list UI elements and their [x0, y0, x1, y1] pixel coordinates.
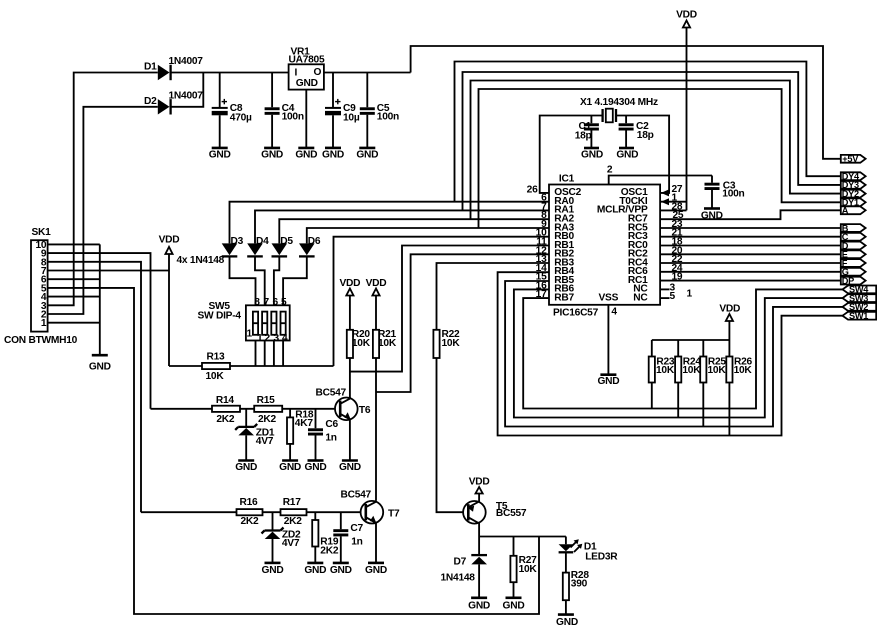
ground C8: [209, 148, 231, 161]
power VDD (R21): [366, 278, 387, 296]
wire RC4 to F flag: [660, 262, 841, 264]
svg-text:GND: GND: [305, 462, 327, 473]
svg-text:1N4148: 1N4148: [441, 573, 476, 584]
power VDD (T5): [469, 476, 490, 493]
svg-text:10K: 10K: [656, 365, 675, 376]
svg-text:GND: GND: [468, 600, 490, 611]
svg-text:R15: R15: [257, 395, 276, 406]
svg-text:10K: 10K: [352, 338, 371, 349]
ground C4: [261, 148, 283, 161]
ground R27: [503, 598, 525, 612]
svg-text:BC557: BC557: [496, 508, 527, 519]
wire RA2 to D5: [279, 219, 549, 243]
flag SW3: [843, 293, 877, 303]
svg-text:6: 6: [272, 297, 278, 308]
flag DY1: [841, 198, 866, 208]
ground R18: [279, 461, 301, 474]
wire D3 cathode to SW5 pin8: [230, 256, 256, 366]
regulator VR1 UA7805: [289, 46, 325, 89]
wire T0CKI stub: [660, 201, 686, 203]
wire DY3 net RA1 wrap: [463, 72, 841, 210]
wire OSC2 to crystal left: [540, 116, 603, 193]
svg-text:GND: GND: [296, 78, 318, 89]
ground ZD2: [262, 563, 284, 576]
wire RA3 to D6: [307, 228, 549, 243]
wire RB0 to switch common riser: [334, 237, 550, 366]
pin numbers IC right: [670, 184, 693, 302]
svg-text:R17: R17: [283, 497, 302, 508]
resistor R15 2K2: [254, 395, 282, 425]
svg-text:4V7: 4V7: [282, 538, 300, 549]
svg-text:+5V: +5V: [842, 154, 859, 164]
diode D6 1N4148: [299, 236, 321, 256]
svg-text:10K: 10K: [682, 365, 701, 376]
ground SK1: [89, 355, 111, 372]
wire T5 collector node line: [479, 536, 566, 538]
diode D1 1N4007: [144, 56, 203, 80]
svg-text:CON BTWMH10: CON BTWMH10: [4, 335, 78, 346]
wire RB4 wrap to SW1: [498, 272, 843, 435]
svg-text:D2: D2: [144, 96, 157, 107]
svg-text:4: 4: [611, 306, 617, 317]
diode D7 1N4148: [441, 555, 488, 584]
wire SK1 pin2 to D2 anode: [48, 107, 158, 314]
resistor R24 10K: [675, 340, 701, 418]
svg-text:D1: D1: [144, 62, 157, 73]
svg-text:1n: 1n: [351, 536, 362, 547]
ground VSS: [597, 375, 619, 388]
svg-text:18p: 18p: [637, 130, 654, 141]
ground C7: [330, 563, 352, 576]
flag C: [841, 232, 866, 242]
wire RC5 to B flag: [660, 227, 841, 229]
resistor R16 2K2: [237, 497, 263, 527]
transistor T7 BC547: [341, 490, 400, 563]
wire RB7 wrap to SW4: [523, 289, 842, 408]
svg-text:GND: GND: [616, 150, 638, 161]
wire SK1 pin8 down to T7 base line: [48, 262, 141, 512]
svg-text:VDD: VDD: [469, 476, 490, 487]
diode D5 1N4148: [272, 236, 294, 256]
wire RA0 to D3: [230, 202, 550, 244]
flag +5V: [841, 154, 866, 164]
ground T7 emitter: [365, 563, 387, 576]
resistor R21 10K pull-up: [373, 296, 397, 501]
wire T6 base line: [151, 408, 336, 410]
wire SK1 ground rail: [99, 244, 101, 355]
wire SK1 pin4 to ground rail: [48, 296, 100, 298]
wire RB5 wrap to SW2: [505, 281, 842, 427]
ground R19: [304, 563, 326, 576]
pin numbers IC left: [527, 184, 547, 300]
capacitor C2 18p: [619, 116, 654, 149]
capacitor C8 470u: [212, 73, 252, 148]
resistor R22 10K: [433, 329, 460, 358]
diode D4 1N4148: [247, 236, 269, 256]
svg-text:VSS: VSS: [599, 293, 619, 304]
svg-text:10µ: 10µ: [343, 113, 360, 124]
svg-text:100n: 100n: [377, 111, 399, 122]
svg-text:GND: GND: [330, 565, 352, 576]
flag DP: [841, 276, 866, 286]
resistor R26 10K: [726, 340, 752, 436]
svg-text:SW1: SW1: [849, 311, 868, 321]
ground C1: [581, 148, 603, 161]
svg-text:1: 1: [687, 288, 693, 299]
wire RC0 to D flag: [660, 245, 841, 247]
svg-text:LED3R: LED3R: [585, 551, 618, 562]
svg-text:10K: 10K: [206, 371, 225, 382]
wire RB3 through R22 to T5 base: [437, 263, 550, 512]
svg-text:NC: NC: [633, 292, 648, 303]
wire D5 cathode to SW5 pin6: [274, 256, 279, 366]
wire SK1 pin5 to bottom rail to T5 node: [48, 288, 539, 614]
svg-text:GND: GND: [365, 565, 387, 576]
svg-text:VDD: VDD: [676, 10, 697, 21]
wire RB1 to T6 collector node: [350, 246, 549, 372]
svg-text:D4: D4: [256, 236, 269, 247]
crystal X1 4.194304 MHz: [580, 97, 658, 122]
resistor R13 10K: [169, 352, 334, 383]
ground D7: [468, 598, 490, 612]
svg-text:1n: 1n: [325, 433, 336, 444]
power VDD (R26): [719, 304, 740, 341]
svg-text:4: 4: [282, 333, 288, 344]
resistor R19 2K2: [312, 512, 339, 563]
switch SW5 SW DIP-4: [198, 297, 290, 344]
ground R28: [556, 615, 578, 629]
flag A: [841, 206, 866, 216]
capacitor C3 100n: [705, 176, 745, 209]
ground C5: [356, 148, 378, 161]
flag SW2: [843, 302, 877, 312]
wire VR1 output rail: [324, 72, 411, 74]
resistor R17 2K2: [281, 497, 307, 527]
svg-text:10K: 10K: [442, 338, 461, 349]
ground ZD1: [235, 461, 257, 474]
flag SW1: [843, 311, 877, 321]
wire SK1 pin7 to VDD riser: [48, 270, 169, 272]
wire R23-R26 top rail: [652, 339, 730, 341]
flag G: [841, 267, 866, 277]
pin arrow OSC1: [661, 189, 669, 196]
svg-text:100n: 100n: [282, 111, 304, 122]
svg-text:IC1: IC1: [559, 174, 575, 185]
svg-text:I: I: [295, 68, 298, 79]
svg-text:470µ: 470µ: [230, 113, 252, 124]
svg-text:4V7: 4V7: [256, 436, 274, 447]
ground C9: [322, 148, 344, 161]
power VDD (R20): [340, 278, 361, 296]
svg-text:SK1: SK1: [32, 227, 52, 238]
wire VSS to ground: [607, 305, 609, 375]
connector SK1 CON BTWMH10: [4, 227, 78, 346]
svg-text:BC547: BC547: [341, 490, 372, 501]
wire +5V from regulator to flag: [411, 46, 841, 159]
flag B: [841, 223, 866, 233]
wire RC2 to E flag: [660, 253, 841, 255]
svg-text:18p: 18p: [575, 131, 592, 142]
capacitor C5 100n: [360, 73, 399, 148]
zener ZD2 4V7: [262, 512, 301, 563]
flag SW4: [843, 285, 877, 295]
svg-text:VDD: VDD: [159, 234, 180, 245]
svg-text:D5: D5: [280, 236, 293, 247]
svg-text:8: 8: [254, 297, 260, 308]
svg-text:2K2: 2K2: [320, 545, 339, 556]
svg-text:BC547: BC547: [316, 388, 347, 399]
wire D2 cathode riser to rail: [171, 73, 204, 107]
zener ZD1 4V7: [235, 409, 275, 461]
svg-text:1N4007: 1N4007: [169, 56, 204, 67]
svg-text:1: 1: [41, 318, 47, 329]
svg-text:RB7: RB7: [554, 292, 574, 303]
wire VDD riser to T0CKI and MCLR: [686, 28, 688, 211]
svg-text:O: O: [314, 67, 322, 78]
flag E: [841, 250, 866, 260]
power VDD (SK1 area): [159, 234, 180, 366]
svg-text:GND: GND: [304, 565, 326, 576]
flag F: [841, 258, 866, 268]
svg-text:GND: GND: [322, 149, 344, 160]
transistor T6 BC547: [316, 388, 371, 461]
svg-text:GND: GND: [556, 617, 578, 628]
resistor R18 4K7: [287, 409, 314, 461]
svg-text:T7: T7: [388, 508, 400, 519]
svg-text:GND: GND: [581, 150, 603, 161]
resistor R14 2K2: [212, 395, 240, 425]
resistor R28 390: [563, 570, 590, 600]
svg-text:10K: 10K: [519, 564, 538, 575]
svg-text:100n: 100n: [722, 189, 744, 200]
wire RC7 to A flag: [660, 210, 841, 219]
wire SK1 pin6 to ground rail: [48, 278, 100, 280]
svg-text:GND: GND: [261, 149, 283, 160]
wire D4 cathode to SW5 pin7: [255, 256, 265, 366]
wire D7 drop: [478, 537, 480, 598]
svg-text:2: 2: [264, 333, 270, 344]
wire NC pin3 stub: [660, 288, 669, 290]
wire IC pin2 VDD line to C3: [609, 176, 712, 185]
svg-text:GND: GND: [262, 565, 284, 576]
svg-text:GND: GND: [295, 149, 317, 160]
diode D3 1N4148: [222, 236, 244, 256]
wire RB2 to T7 collector node: [376, 254, 549, 392]
svg-text:GND: GND: [279, 462, 301, 473]
LED D1 LED3R: [559, 537, 619, 573]
wire SK1 pin1 to ground rail: [48, 322, 100, 324]
svg-text:R14: R14: [216, 395, 235, 406]
wire D1 cathode rail to VR1 input: [171, 72, 289, 74]
wire D6 cathode to SW5 pin5: [283, 256, 307, 366]
svg-text:390: 390: [571, 579, 588, 590]
ground C3: [701, 209, 723, 222]
svg-text:GND: GND: [339, 462, 361, 473]
svg-text:GND: GND: [209, 149, 231, 160]
flag D: [841, 241, 866, 251]
power VDD (top): [676, 10, 697, 28]
svg-text:10K: 10K: [734, 365, 753, 376]
svg-text:10K: 10K: [378, 338, 397, 349]
svg-text:UA7805: UA7805: [289, 55, 325, 66]
wire RB6 wrap to SW3: [514, 289, 843, 417]
transistor T5 BC557: [463, 494, 527, 537]
wire R28 to ground: [565, 600, 567, 614]
wire DY1 net RA3 wrap: [479, 89, 841, 228]
flag DY4: [841, 172, 866, 182]
flag DY2: [841, 189, 866, 199]
svg-text:D3: D3: [231, 236, 244, 247]
wire T7 base line: [141, 511, 361, 513]
capacitor C6 1n: [308, 409, 339, 461]
svg-text:GND: GND: [235, 462, 257, 473]
svg-text:1: 1: [257, 333, 263, 344]
flag DY3: [841, 180, 866, 190]
svg-text:R13: R13: [207, 352, 226, 363]
svg-text:5: 5: [281, 297, 287, 308]
diode D2 1N4007: [144, 90, 203, 114]
svg-text:A: A: [842, 206, 849, 216]
capacitor C4 100n: [265, 73, 304, 148]
svg-text:VDD: VDD: [719, 304, 740, 315]
svg-text:4K7: 4K7: [295, 418, 314, 429]
wire RC1 to DP flag: [660, 280, 841, 282]
svg-text:7: 7: [263, 297, 269, 308]
resistor R20 10K pull-up: [347, 296, 371, 399]
ground C6: [305, 461, 327, 474]
svg-text:D7: D7: [454, 557, 467, 568]
svg-text:X1 4.194304 MHz: X1 4.194304 MHz: [580, 97, 658, 108]
svg-text:D6: D6: [308, 236, 321, 247]
ground VR1: [295, 148, 317, 161]
svg-text:VDD: VDD: [366, 278, 387, 289]
svg-text:C6: C6: [325, 419, 338, 430]
ground C2: [616, 148, 638, 161]
IC IC1 PIC16C57: [549, 174, 660, 319]
svg-text:5: 5: [670, 291, 676, 302]
wire DY2 net RA2 wrap: [471, 81, 841, 220]
capacitor C1 18p: [575, 116, 599, 149]
resistor R27 10K: [510, 537, 537, 598]
wire SK1 pin3 to D1 anode: [48, 73, 158, 306]
wire NC pin5 stub: [660, 297, 669, 299]
wire RC3 to C flag: [660, 236, 841, 238]
svg-text:GND: GND: [597, 376, 619, 387]
ground T6 emitter: [339, 461, 361, 474]
pin arrow T0CKI: [661, 198, 669, 205]
svg-text:2: 2: [607, 165, 613, 176]
wire MCLR stub: [660, 209, 686, 211]
svg-text:GND: GND: [89, 361, 111, 372]
svg-text:PIC16C57: PIC16C57: [553, 308, 599, 319]
svg-text:SW DIP-4: SW DIP-4: [198, 311, 242, 322]
svg-text:C7: C7: [350, 523, 363, 534]
svg-text:2K2: 2K2: [241, 516, 260, 527]
svg-text:GND: GND: [503, 600, 525, 611]
svg-text:R16: R16: [240, 497, 259, 508]
svg-text:26: 26: [527, 184, 538, 195]
svg-text:2K2: 2K2: [258, 414, 277, 425]
svg-text:GND: GND: [356, 149, 378, 160]
resistor R23 10K: [649, 340, 675, 409]
svg-text:1: 1: [247, 329, 253, 340]
wire VR1 ground pin: [305, 90, 307, 148]
capacitor C9 10u: [325, 73, 360, 148]
svg-text:2K2: 2K2: [216, 414, 235, 425]
wire OSC1 to crystal right: [616, 116, 669, 193]
svg-text:3: 3: [273, 333, 279, 344]
svg-text:2K2: 2K2: [284, 516, 303, 527]
wire SK1 pin9 down to T6 base line: [48, 253, 151, 409]
svg-text:1N4007: 1N4007: [169, 90, 204, 101]
resistor R25 10K: [700, 340, 726, 427]
svg-text:4x 1N4148: 4x 1N4148: [177, 255, 225, 266]
svg-text:VDD: VDD: [340, 278, 361, 289]
svg-text:10K: 10K: [708, 365, 727, 376]
wire DY4 net RA0 wrap: [455, 62, 841, 202]
wire RA1 to D4: [255, 210, 549, 243]
svg-text:T6: T6: [359, 405, 371, 416]
capacitor C7 1n: [333, 512, 363, 563]
wire SK1 pin10 to ground rail: [48, 243, 100, 245]
wire RC6 to G flag: [660, 271, 841, 273]
